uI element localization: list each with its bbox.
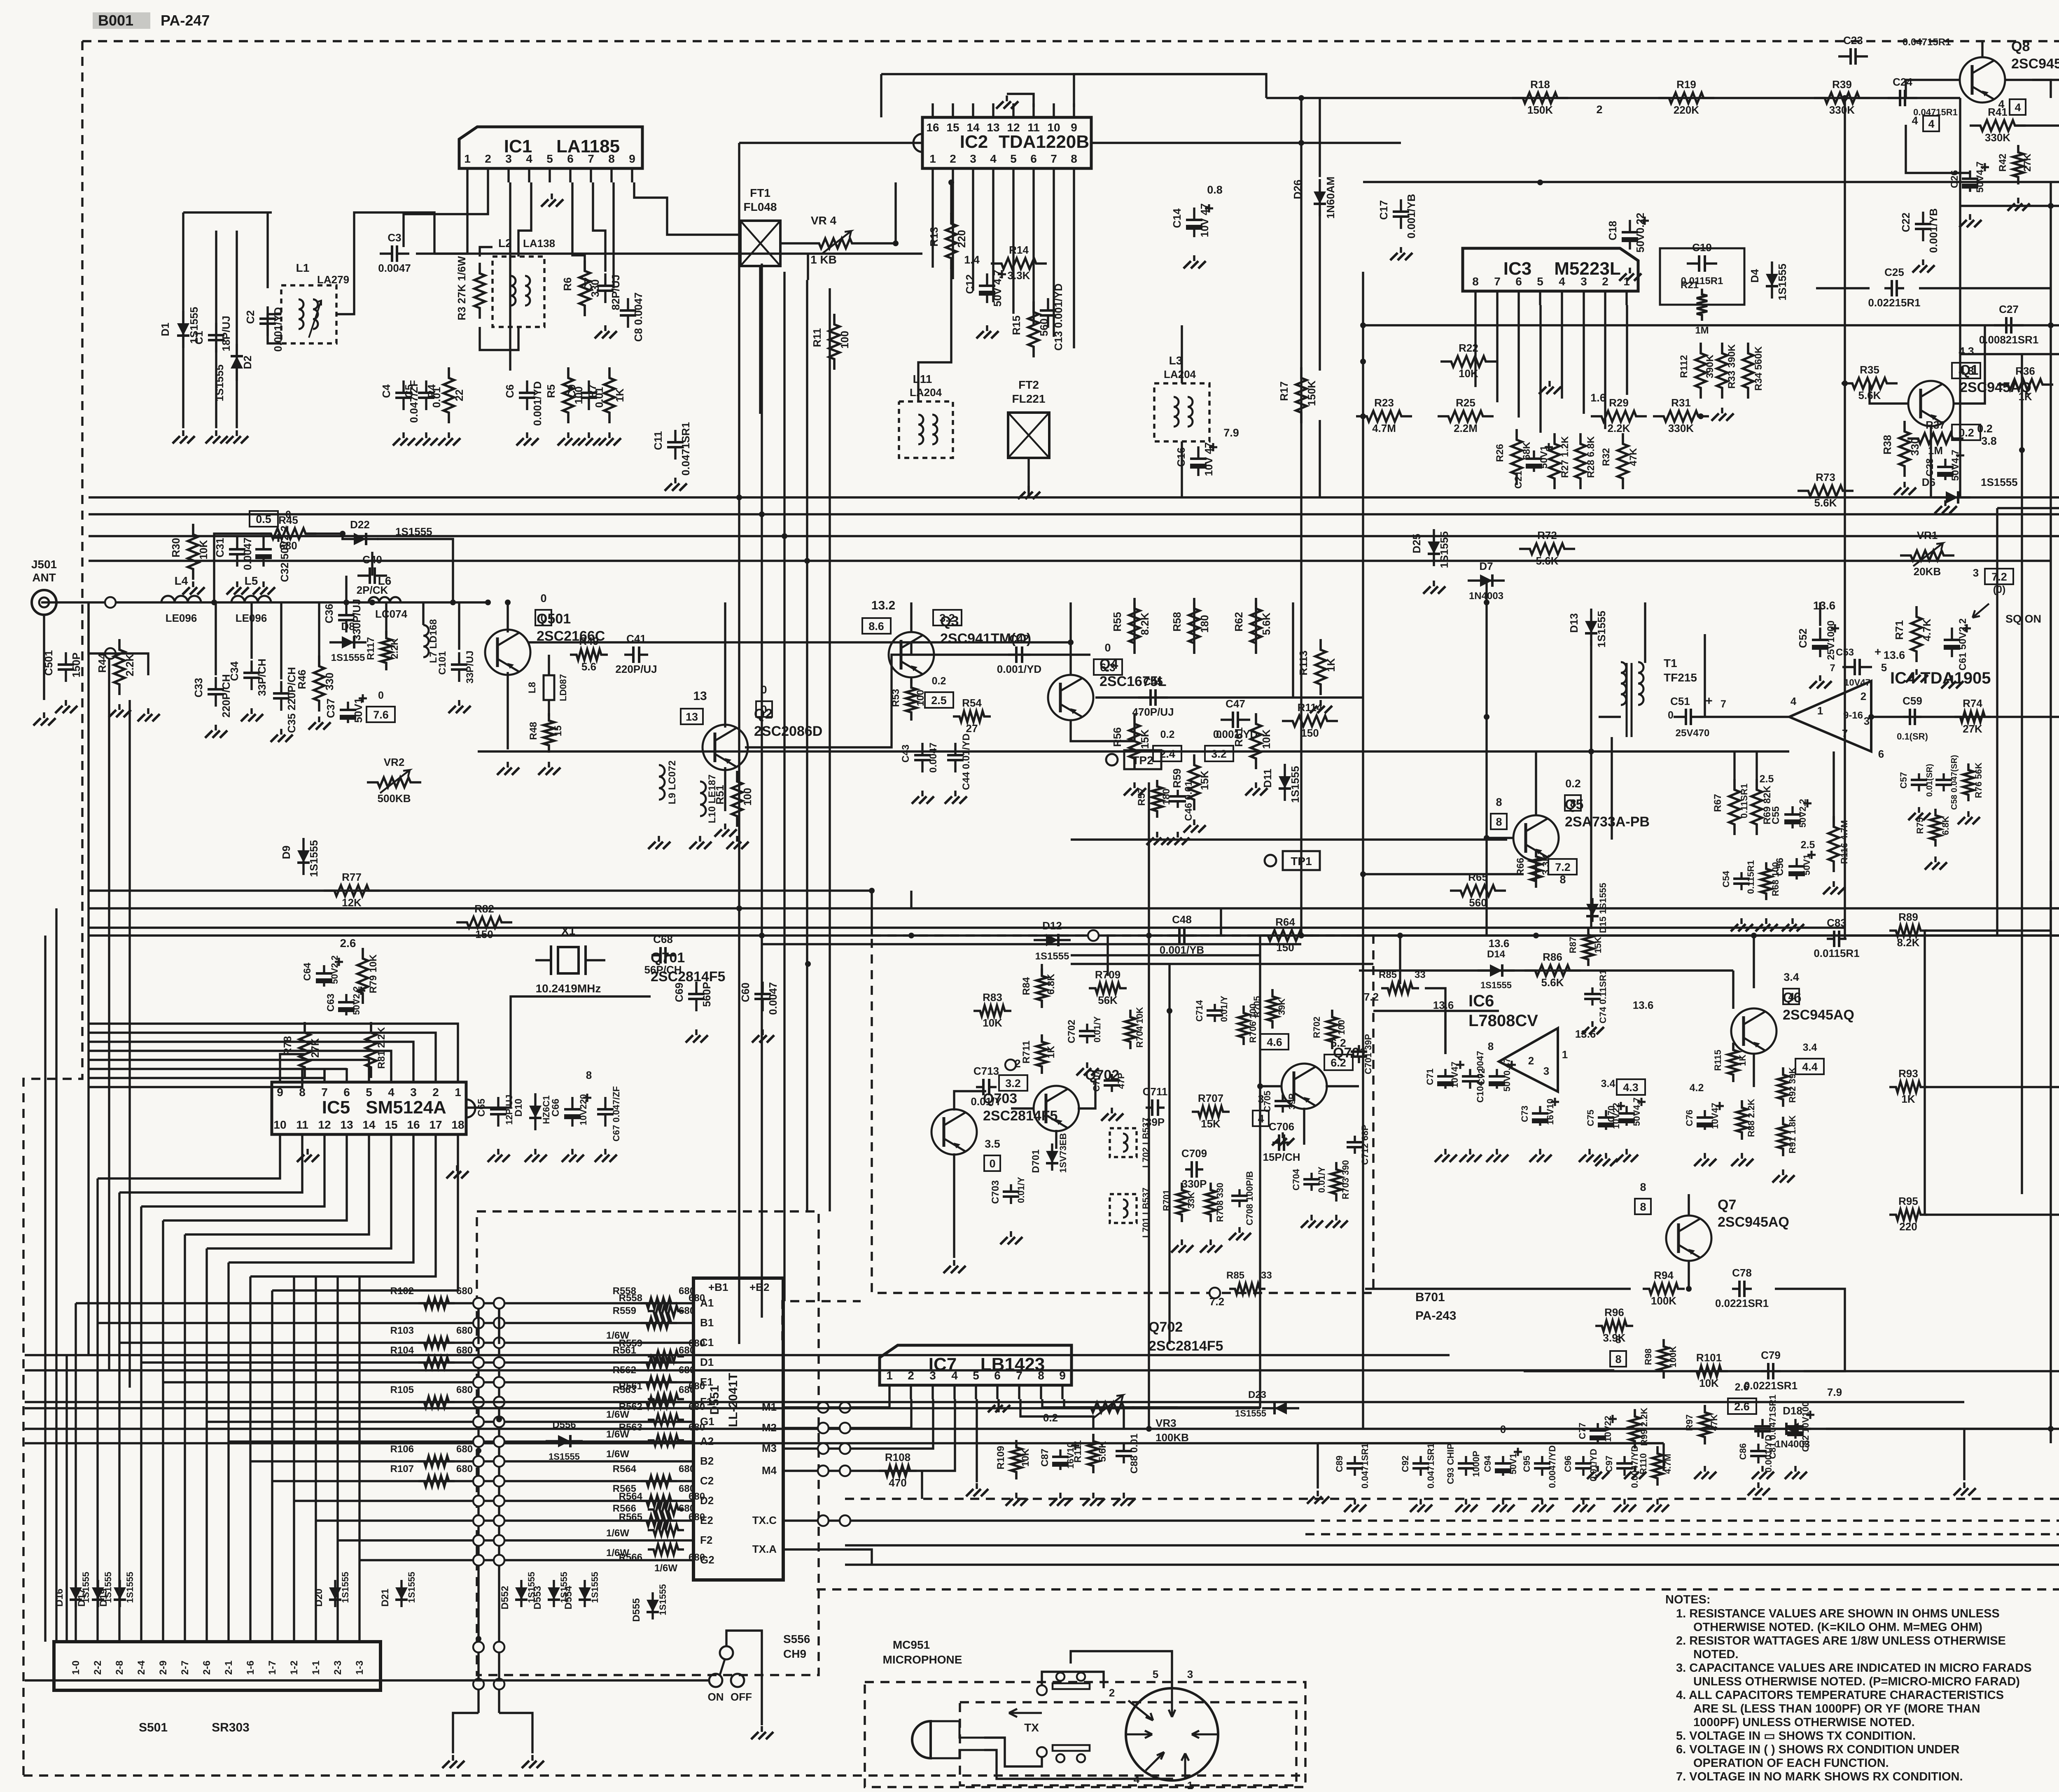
transistor Q501 (485, 630, 530, 675)
svg-text:5.6K: 5.6K (1541, 976, 1564, 989)
wire R117 drop (385, 602, 387, 635)
resistor (1618, 433, 1628, 489)
ground (1969, 214, 1971, 220)
svg-text:1S1555: 1S1555 (1776, 264, 1788, 301)
ground (1794, 1466, 1796, 1472)
ground (1704, 1153, 1706, 1159)
connector junction (494, 1357, 504, 1368)
svg-text:C18: C18 (1606, 221, 1619, 240)
svg-text:1S1555: 1S1555 (331, 652, 365, 663)
svg-text:5: 5 (1010, 152, 1017, 165)
wire R89 row (1925, 929, 2051, 931)
wire Q701 out (1326, 1085, 1359, 1087)
connector junction (473, 1298, 484, 1309)
svg-text:22: 22 (453, 390, 465, 401)
wire (1317, 1443, 1319, 1489)
wire Q703 base (954, 1091, 986, 1111)
svg-text:D7: D7 (1479, 560, 1493, 572)
capacitor (1674, 716, 1703, 718)
ground (1433, 581, 1435, 586)
svg-text:2: 2 (950, 152, 956, 165)
wire T1 out (1599, 716, 1621, 718)
svg-text:C68: C68 (653, 933, 673, 945)
svg-text:680: 680 (689, 1381, 705, 1392)
ground (1335, 1215, 1337, 1220)
svg-text:NOTED.: NOTED. (1693, 1648, 1739, 1661)
svg-text:C21: C21 (1513, 471, 1524, 489)
svg-text:0.01(SR): 0.01(SR) (1925, 764, 1934, 797)
svg-text:1S1555: 1S1555 (549, 1451, 580, 1462)
junction (496, 1416, 502, 1422)
ground (695, 1029, 697, 1035)
capacitor (1757, 1444, 1759, 1463)
svg-text:C55: C55 (1770, 806, 1781, 824)
svg-text:C9: C9 (565, 384, 578, 398)
svg-text:10K: 10K (197, 540, 210, 560)
svg-text:0.11SR1: 0.11SR1 (1739, 784, 1749, 818)
wire IC3 pin drop 4 (1561, 305, 1563, 399)
svg-text:4: 4 (2015, 101, 2021, 114)
svg-text:C58 0.047(SR): C58 0.047(SR) (1950, 755, 1959, 810)
svg-text:2.6: 2.6 (1735, 1381, 1749, 1393)
svg-text:NOTES:: NOTES: (1665, 1593, 1711, 1606)
wire matrix row 4 (141, 1361, 681, 1363)
svg-text:6: 6 (343, 1086, 350, 1099)
svg-text:FL048: FL048 (744, 201, 777, 213)
diode (584, 1580, 586, 1607)
svg-text:8: 8 (1071, 152, 1077, 165)
wire R46 drop (318, 602, 320, 666)
svg-text:C52: C52 (1797, 628, 1809, 648)
wire Q1 collector (1954, 325, 1985, 404)
capacitor C713 (976, 1086, 997, 1088)
svg-text:C11: C11 (652, 431, 664, 450)
IC2 pin 12 (1012, 103, 1014, 117)
resistor (1761, 862, 1772, 900)
capacitor (262, 537, 264, 567)
IC4 output wire (1871, 716, 2059, 718)
svg-text:C704: C704 (1291, 1169, 1301, 1190)
IC2 pin 16 (931, 103, 934, 117)
svg-text:25V470: 25V470 (1676, 728, 1710, 739)
svg-text:680: 680 (689, 1491, 705, 1502)
IC5 pin 8 (301, 1068, 303, 1082)
svg-text:R34 560K: R34 560K (1753, 346, 1764, 391)
wire M1 to IC7 pin1 (796, 1399, 889, 1407)
svg-text:330: 330 (1909, 438, 1921, 455)
svg-text:2-8: 2-8 (114, 1661, 125, 1675)
inductor L11 sec (932, 415, 937, 444)
diode (1051, 1143, 1053, 1171)
ground (921, 791, 923, 796)
svg-text:13.6: 13.6 (1633, 999, 1654, 1011)
ground (1539, 1149, 1541, 1155)
svg-text:TF215: TF215 (1664, 671, 1697, 684)
svg-text:C86: C86 (1738, 1443, 1748, 1460)
resistor (2013, 145, 2024, 184)
svg-text:8.2K: 8.2K (1139, 612, 1151, 635)
IC1 pin 9 (631, 168, 633, 182)
connector junction (473, 1515, 484, 1526)
svg-text:11: 11 (1027, 121, 1040, 134)
svg-text:17: 17 (429, 1118, 442, 1131)
IC7 dashed pocket bottom (845, 1498, 2059, 1500)
resistor (418, 1298, 455, 1309)
resistor (1737, 1100, 1747, 1140)
wire Q5 collector (1535, 751, 1537, 815)
svg-text:8.6: 8.6 (868, 620, 884, 632)
ground (425, 432, 427, 438)
svg-text:D1: D1 (700, 1356, 714, 1368)
svg-text:R66: R66 (1515, 858, 1526, 876)
capacitor (604, 273, 606, 303)
capacitor (1539, 1106, 1541, 1126)
bottom section top bus (89, 934, 2059, 936)
wire matrix row 3 (119, 1342, 681, 1344)
wire IC1 pin6 (572, 182, 585, 272)
matrix bus column B (498, 1303, 500, 1713)
wire IC5 pin1 left (89, 1024, 458, 1068)
wire L11 up (918, 268, 951, 401)
resistor (648, 1394, 684, 1405)
svg-text:1/6W: 1/6W (654, 1563, 677, 1574)
svg-text:16V10: 16V10 (1545, 1099, 1555, 1125)
svg-text:33P/UJ: 33P/UJ (465, 651, 476, 684)
resistor (1037, 1034, 1047, 1074)
wire Q4 emitter (1071, 720, 1135, 741)
svg-text:C5: C5 (403, 384, 415, 398)
svg-text:R25: R25 (1456, 397, 1475, 409)
svg-text:0.0047: 0.0047 (767, 982, 779, 1015)
resistor R39 (1814, 93, 1870, 103)
ground (736, 836, 738, 842)
left edge vertical 3 (65, 1355, 68, 1642)
D551 pin G2 (681, 1559, 693, 1561)
svg-text:S556: S556 (783, 1633, 810, 1645)
svg-text:0.04715R1: 0.04715R1 (1913, 107, 1958, 117)
svg-text:1: 1 (1187, 1779, 1193, 1792)
svg-text:0: 0 (285, 509, 291, 520)
resistor (1911, 606, 1922, 662)
svg-text:R68 100: R68 100 (1770, 862, 1781, 896)
connector junction (473, 1456, 484, 1467)
svg-text:R87: R87 (1568, 937, 1578, 953)
svg-text:3.4: 3.4 (1601, 1078, 1615, 1090)
svg-text:0.02215R1: 0.02215R1 (1868, 296, 1920, 309)
svg-text:C19: C19 (1692, 241, 1712, 254)
D551 pin M4 (783, 1470, 796, 1472)
svg-text:3. CAPACITANCE VALUES ARE INDI: 3. CAPACITANCE VALUES ARE INDICATED IN M… (1676, 1661, 2032, 1675)
connector junction (494, 1456, 504, 1467)
capacitor (588, 380, 590, 410)
capacitor C75 (1605, 1110, 1607, 1130)
junction (1842, 380, 1848, 386)
junction (893, 240, 899, 246)
svg-text:R563: R563 (619, 1422, 642, 1433)
svg-text:50V1: 50V1 (352, 698, 364, 723)
resistor (1267, 989, 1278, 1029)
svg-text:390K: 390K (1704, 355, 1716, 378)
capacitor (1541, 1456, 1543, 1476)
svg-text:1S1555: 1S1555 (340, 1572, 350, 1603)
svg-text:R73: R73 (1816, 471, 1835, 483)
capacitor (1819, 628, 1821, 657)
svg-text:R106: R106 (390, 1444, 414, 1455)
RF chain wire Q501-Q2 (528, 641, 1071, 643)
svg-text:3.9K: 3.9K (1603, 1332, 1626, 1344)
junction (1397, 933, 1403, 938)
svg-text:F2: F2 (700, 1534, 712, 1546)
capacitor (1010, 1184, 1012, 1204)
capacitor (280, 681, 282, 711)
capacitor (458, 652, 460, 682)
svg-text:R79 10K: R79 10K (368, 954, 379, 993)
svg-text:C66: C66 (550, 1099, 561, 1117)
wire C40 drop (371, 552, 373, 576)
wire C78 loop (1775, 1289, 1845, 1371)
svg-text:C89: C89 (1334, 1456, 1345, 1472)
wire IC5 pin2 left (89, 1033, 436, 1068)
svg-text:13.6: 13.6 (1489, 937, 1510, 950)
svg-text:R29: R29 (1609, 397, 1629, 409)
svg-text:6: 6 (1515, 275, 1522, 288)
svg-text:D553: D553 (532, 1586, 543, 1609)
wire (236, 231, 238, 428)
resistor (299, 1022, 310, 1078)
svg-text:15P/CH: 15P/CH (1263, 1151, 1300, 1163)
svg-text:C59: C59 (1903, 695, 1922, 707)
svg-text:2: 2 (1528, 1055, 1534, 1067)
wire S501 column 11 (293, 1276, 295, 1642)
microphone element (912, 1721, 931, 1758)
wire IC7 pin9 (1063, 1399, 1065, 1407)
svg-text:R707: R707 (1198, 1092, 1223, 1104)
wire S556 to gnd (726, 1631, 762, 1725)
svg-text:D17: D17 (76, 1589, 87, 1607)
svg-text:1. RESISTANCE VALUES ARE SHOWN: 1. RESISTANCE VALUES ARE SHOWN IN OHMS U… (1676, 1607, 2000, 1620)
wire Q8 collector to R43 (2005, 80, 2059, 92)
wire L3 up (1181, 325, 1183, 383)
wire T1 to Q5 (1611, 737, 1613, 840)
resistor (641, 1515, 677, 1526)
connector junction (473, 1555, 484, 1566)
svg-text:R48: R48 (528, 722, 539, 740)
junction (476, 1636, 481, 1642)
svg-text:560: 560 (1038, 318, 1050, 336)
capacitor (425, 380, 427, 410)
capacitor C79 (1761, 1370, 1781, 1372)
resistor (1037, 968, 1047, 1008)
inductor L701 LB537 box (1110, 1194, 1137, 1223)
svg-text:7: 7 (1721, 698, 1726, 710)
svg-text:D10: D10 (513, 1099, 524, 1117)
svg-text:R103: R103 (390, 1325, 414, 1336)
svg-text:C37: C37 (324, 698, 337, 718)
IC2 pin 6 (1032, 168, 1034, 182)
diode (1590, 609, 1592, 646)
svg-text:C61 50V2.2: C61 50V2.2 (1957, 618, 1968, 671)
IC3 pin 1 (1625, 291, 1627, 305)
wire IC5 pin5 left (89, 1060, 369, 1068)
op-amp/IC IC3 body (1463, 248, 1638, 291)
bus wire band 1 (89, 496, 2059, 498)
svg-text:2-4: 2-4 (136, 1660, 147, 1675)
capacitor (1969, 170, 1971, 192)
svg-text:C71: C71 (1425, 1069, 1435, 1085)
svg-text:4: 4 (388, 1086, 395, 1099)
resistor (1011, 1440, 1022, 1479)
svg-text:680: 680 (456, 1286, 473, 1297)
junction (369, 600, 375, 605)
IC7 dashed pocket left (782, 1301, 861, 1340)
svg-text:2SC945AQ: 2SC945AQ (1783, 1007, 1854, 1023)
svg-text:C714: C714 (1194, 1000, 1205, 1022)
T1 secondary (1638, 662, 1643, 705)
svg-text:3.3K: 3.3K (1008, 269, 1030, 282)
svg-text:1K: 1K (1737, 1055, 1748, 1066)
board PA-247 boundary left (23, 41, 82, 1776)
crystal X1 (558, 947, 579, 973)
bus wire band 6 (89, 926, 1845, 929)
ground FT2 (1027, 486, 1029, 492)
wire IC1 pin3 down (509, 182, 511, 371)
svg-text:10: 10 (273, 1118, 286, 1131)
svg-text:6: 6 (1030, 152, 1037, 165)
svg-text:680: 680 (456, 1384, 473, 1395)
svg-text:L6: L6 (378, 574, 392, 587)
ground (1010, 1231, 1012, 1237)
svg-text:3.2: 3.2 (939, 612, 955, 624)
svg-text:Q8: Q8 (2011, 39, 2030, 54)
ground (976, 1483, 978, 1489)
ground (1177, 832, 1179, 838)
svg-text:R7: R7 (586, 384, 598, 398)
capacitor C25 (1884, 287, 1904, 289)
wire IC2 pin2 to R13 (950, 182, 952, 214)
D551 pin G1 (681, 1421, 693, 1423)
svg-text:6: 6 (567, 152, 574, 165)
wire Q703 emitter (953, 1153, 955, 1258)
resistor (1238, 1006, 1249, 1045)
svg-text:C76: C76 (1684, 1110, 1695, 1126)
svg-text:R74: R74 (1963, 697, 1982, 709)
svg-text:C60: C60 (739, 982, 752, 1002)
wire R93 row (1925, 1086, 2059, 1088)
svg-text:33: 33 (1261, 1270, 1272, 1281)
capacitor C68 (651, 954, 675, 956)
wire C51 to IC4 (1700, 716, 1789, 718)
svg-text:L1: L1 (296, 261, 310, 274)
svg-text:R39: R39 (1832, 78, 1852, 91)
svg-text:R84: R84 (1021, 977, 1032, 995)
svg-text:R78: R78 (281, 1036, 294, 1056)
svg-text:C708 100P/B: C708 100P/B (1244, 1171, 1255, 1225)
svg-text:6.2: 6.2 (1331, 1057, 1346, 1069)
wire IC5 pin7 left (89, 1068, 324, 1078)
center vertical bus 1 (1300, 98, 1302, 936)
ground Q501 (507, 762, 509, 768)
svg-text:50V0.22: 50V0.22 (1634, 213, 1646, 253)
capacitor (1469, 1069, 1471, 1089)
wire D26 to R17 (1319, 210, 1321, 371)
D551 pin A2 (681, 1440, 693, 1442)
svg-text:7.2: 7.2 (1991, 571, 2007, 583)
svg-text:SR303: SR303 (212, 1721, 250, 1734)
wire matrix row 14 (360, 1559, 681, 1561)
svg-text:R72: R72 (1537, 529, 1557, 541)
capacitor (1951, 628, 1953, 657)
svg-text:330P/UJ: 330P/UJ (350, 599, 363, 640)
dashed return bus upper (1305, 1519, 2059, 1521)
svg-text:10V47: 10V47 (1450, 1062, 1460, 1088)
svg-text:R704 10K: R704 10K (1135, 1007, 1145, 1048)
IC1 pin 3 (507, 168, 509, 182)
svg-text:1-7: 1-7 (267, 1661, 278, 1675)
svg-text:D18: D18 (1783, 1405, 1802, 1417)
capacitor (695, 982, 697, 1011)
stub (807, 254, 809, 280)
capacitor (345, 994, 347, 1015)
capacitor (250, 660, 252, 690)
svg-text:R36: R36 (2015, 365, 2035, 377)
center vertical long 1 (1148, 782, 1150, 1429)
svg-text:C711: C711 (1143, 1085, 1168, 1098)
svg-text:C73: C73 (1520, 1106, 1530, 1122)
IC2 pin 7 (1053, 168, 1055, 182)
inductor L10 (700, 782, 706, 816)
svg-text:R86: R86 (1543, 951, 1562, 963)
capacitor (323, 965, 325, 987)
svg-text:R101: R101 (1696, 1351, 1722, 1364)
svg-text:15K: 15K (1201, 1118, 1221, 1130)
wire IC3 pin drop 1 (1496, 305, 1498, 402)
svg-text:680: 680 (689, 1552, 705, 1563)
volume feed wire (1363, 324, 2059, 326)
resistor (604, 367, 615, 423)
svg-text:3: 3 (1580, 275, 1587, 288)
resistor R85 (1229, 1283, 1265, 1294)
ground (1541, 1499, 1543, 1505)
svg-text:10V 47: 10V 47 (1198, 203, 1211, 237)
svg-text:0.04715R1: 0.04715R1 (1903, 37, 1951, 48)
svg-text:FT2: FT2 (1018, 378, 1039, 391)
capacitor (1400, 199, 1402, 229)
svg-text:3.2: 3.2 (1005, 1077, 1021, 1090)
svg-text:10.2419MHz: 10.2419MHz (536, 982, 601, 995)
svg-text:M3: M3 (762, 1442, 777, 1454)
resistor (114, 639, 125, 695)
svg-text:1/6W: 1/6W (606, 1449, 629, 1460)
bus wire band 4 (89, 560, 2051, 562)
svg-text:C93 CHIP: C93 CHIP (1445, 1443, 1456, 1484)
svg-text:(0): (0) (1993, 584, 2006, 595)
capacitor (1704, 1110, 1706, 1130)
resistor (1717, 343, 1728, 399)
resistor (1189, 598, 1200, 654)
ground (1015, 1493, 1017, 1498)
resistor (314, 656, 324, 712)
svg-text:27: 27 (966, 722, 978, 735)
svg-text:10V47: 10V47 (1710, 1103, 1720, 1129)
diode D12 (1034, 939, 1071, 941)
svg-text:15: 15 (946, 121, 959, 134)
svg-text:R564: R564 (613, 1463, 637, 1475)
return bus wire 1 (845, 1544, 2059, 1546)
T1 primary (1621, 662, 1626, 705)
junction (1868, 714, 1874, 720)
svg-text:C57: C57 (1898, 772, 1909, 789)
svg-text:5.6K: 5.6K (1260, 612, 1272, 635)
